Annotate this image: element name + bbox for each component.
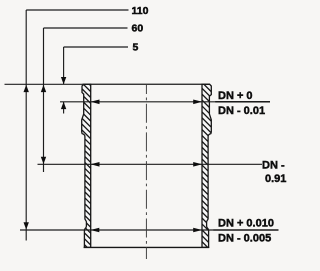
- svg-text:DN + 0: DN + 0: [218, 90, 253, 102]
- svg-text:DN - 0.01: DN - 0.01: [218, 105, 265, 117]
- svg-text:5: 5: [133, 42, 139, 54]
- svg-text:0.91: 0.91: [265, 173, 286, 185]
- svg-text:DN -: DN -: [262, 160, 285, 172]
- svg-text:DN - 0.005: DN - 0.005: [218, 233, 271, 245]
- svg-text:110: 110: [132, 5, 149, 17]
- svg-text:DN + 0.010: DN + 0.010: [218, 218, 274, 230]
- svg-text:60: 60: [132, 23, 144, 35]
